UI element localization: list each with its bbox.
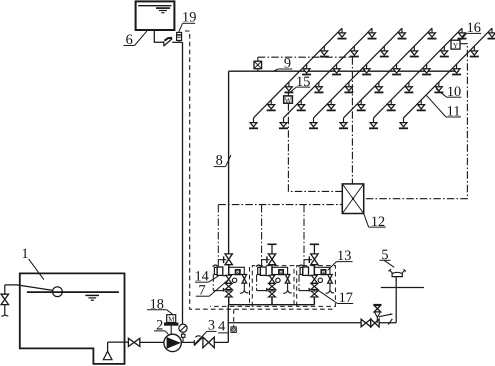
drencher head row 2 pos 2 (297, 100, 306, 110)
label 6 (124, 31, 148, 48)
svg-text:4: 4 (218, 319, 225, 335)
svg-text:1: 1 (21, 246, 28, 262)
valve group 1 riser (228, 265, 230, 305)
drencher head row 3 pos 6 (398, 28, 407, 38)
control line from unit 12 top (351, 57, 353, 184)
svg-text:Y: Y (453, 41, 459, 50)
drencher head row 6 pos 4 (452, 64, 461, 74)
pilot valve 14 group 1 (213, 265, 229, 276)
check valve on test pipe (361, 319, 371, 327)
distribution branch pipe row 4 (344, 28, 433, 118)
pipe after valves (379, 322, 396, 324)
valve group 3 riser (313, 265, 315, 305)
drencher head row 4 pos 2 (357, 100, 366, 110)
pilot control drop line group 1 (217, 205, 219, 260)
valve group 2 riser (271, 265, 273, 305)
drencher head row 6 pos 3 (434, 82, 443, 92)
valve group 2 upper shut-off valve (262, 254, 276, 265)
label 2 (154, 318, 168, 335)
drencher head row 6 pos 2 (417, 100, 426, 110)
check valve at tank 6 outlet (164, 38, 173, 47)
flow detector on riser (231, 327, 236, 333)
pump 2 with motor 18 (164, 334, 181, 351)
supply riser from pump line (227, 305, 229, 343)
drencher head row 4 pos 6 (428, 28, 437, 38)
drencher head row 3 pos 3 (344, 82, 353, 92)
pilot valve 14 group 2 (256, 265, 272, 276)
drain outlet group 2 (283, 290, 292, 293)
svg-text:s: s (323, 270, 325, 276)
shut-off valve middle group 2 (269, 283, 276, 289)
suction strainer in sump (103, 342, 112, 360)
drain branch valve group 2 (285, 275, 290, 291)
riser lower segment group 2 (271, 297, 273, 305)
pipe to riser (214, 341, 228, 343)
distribution branch pipe row 1 (254, 28, 343, 118)
drencher head row 5 pos 3 (404, 82, 413, 92)
svg-text:8: 8 (216, 152, 223, 168)
svg-text:s: s (280, 270, 282, 276)
label 10 (436, 84, 461, 100)
control line from unit 12 to valve group pilots (218, 204, 342, 206)
drencher head row 3 pos 1 (309, 118, 318, 128)
drain outlet group 1 (240, 290, 249, 293)
label 1 (21, 246, 44, 280)
pressure gauge on pilot line (179, 324, 187, 342)
shut-off valve lower group 1 (225, 291, 232, 297)
dashed box around valve group 3 (297, 266, 336, 307)
drencher head row 6 pos 5 (470, 46, 479, 56)
riser to hydrant 5 (395, 277, 397, 323)
drencher head row 5 pos 5 (440, 46, 449, 56)
drencher head row 4 pos 4 (392, 64, 401, 74)
deluge valve group 2 (269, 265, 275, 284)
control line from detector 15 down to control unit 12 (288, 103, 342, 191)
label 8 (214, 152, 231, 168)
valve group 1 upper shut-off valve (218, 254, 232, 265)
drencher head row 2 pos 3 (314, 82, 323, 92)
pressure gauge group 1 (232, 278, 236, 282)
signal device s group 1 (236, 270, 240, 276)
labels 3 4 (195, 318, 228, 344)
drencher head row 1 pos 3 (284, 82, 293, 92)
drencher head row 4 pos 3 (374, 82, 383, 92)
drencher head row 2 pos 5 (350, 46, 359, 56)
pilot drain link group 2 (257, 274, 267, 291)
svg-text:M: M (168, 316, 175, 324)
dashed box around valve group 1 (210, 267, 250, 306)
main feed line 8 vertical (228, 71, 230, 254)
drencher head row 1 pos 2 (267, 100, 276, 110)
drencher head row 6 pos 1 (399, 118, 408, 128)
device 19 (metering device) (177, 32, 182, 42)
drain outlet group 3 (326, 290, 335, 293)
pilot control drop line group 3 (303, 205, 305, 260)
valve group 2 capped stub (267, 244, 276, 254)
hydrant 5 hose connection (389, 269, 407, 276)
detector W box 15 under drencher (284, 93, 293, 105)
drencher head row 4 pos 5 (410, 46, 419, 56)
detector Y box 16 (451, 40, 460, 50)
drencher head row 1 pos 1 (249, 118, 258, 128)
drencher head row 1 pos 4 (302, 64, 311, 74)
distribution branch pipe row 5 (374, 28, 463, 118)
drencher head row 5 pos 6 (458, 28, 467, 38)
drencher head row 1 pos 5 (320, 46, 329, 56)
shut-off valve middle group 3 (311, 283, 318, 289)
valve chamber group 1 (229, 267, 245, 274)
drencher head row 6 pos 6 (488, 28, 495, 38)
pilot actuator link group 3 (303, 260, 305, 267)
pilot actuator link group 2 (261, 260, 263, 267)
test pipe to hydrant (228, 322, 361, 324)
label 12 (364, 214, 386, 230)
pressure gauge group 3 (318, 278, 322, 282)
dashed pump-room enclosure (185, 31, 335, 309)
label 14 (194, 269, 218, 285)
pilot drain link group 3 (299, 274, 309, 291)
pipe from check valve to corner (172, 41, 182, 43)
overflow pipe with valve (1, 285, 9, 316)
label 5 (380, 247, 395, 267)
riser lower segment group 1 (228, 297, 230, 305)
valve chamber group 2 (272, 267, 288, 274)
drencher head row 1 pos 6 (338, 28, 347, 38)
safety valve with lever (374, 305, 394, 323)
union slash on pipe (388, 319, 392, 325)
drencher head row 5 pos 2 (387, 100, 396, 110)
electric motor 18 (164, 315, 178, 335)
drencher head row 5 pos 1 (369, 118, 378, 128)
label 16 (461, 20, 481, 40)
drencher head row 2 pos 1 (279, 118, 288, 128)
drain branch valve group 3 (328, 275, 333, 291)
drencher head row 3 pos 2 (327, 100, 336, 110)
drencher head row 3 pos 4 (362, 64, 371, 74)
reservoir 1 (20, 273, 125, 364)
pilot supply line from tank 6 down to pump outlet (182, 42, 184, 324)
drencher head row 2 pos 4 (332, 64, 341, 74)
distribution branch pipe row 6 (404, 28, 493, 118)
signal device s group 3 (321, 270, 325, 276)
label 13 (328, 248, 353, 271)
tank 6 (pilot water tank) (136, 1, 175, 30)
supply main line horizontal (229, 70, 459, 72)
drencher head row 2 pos 6 (368, 28, 377, 38)
dashed box around valve group 2 (252, 266, 294, 307)
signal device s group 2 (279, 270, 283, 276)
valve chamber group 3 (314, 267, 330, 274)
drencher head row 5 pos 4 (422, 64, 431, 74)
suction gate valve (128, 338, 139, 346)
svg-text:W: W (285, 95, 292, 104)
label 7 (196, 280, 229, 299)
pilot actuator link group 1 (217, 260, 219, 267)
signal line from flow detector (233, 309, 235, 327)
svg-text:s: s (237, 270, 239, 276)
pilot valve 14 group 3 (298, 265, 314, 276)
float valve in reservoir (5, 285, 63, 297)
deluge valve group 3 (312, 265, 318, 284)
shut-off valve lower group 3 (311, 291, 318, 297)
check valve 3 (194, 336, 203, 346)
control unit 12 (342, 184, 363, 214)
drencher head row 4 pos 1 (339, 118, 348, 128)
pressure gauge group 2 (276, 278, 280, 282)
label 19 (179, 10, 197, 32)
drain branch valve group 1 (242, 275, 247, 291)
label 11 (427, 95, 462, 119)
shut-off valve middle group 1 (225, 283, 232, 289)
ground line (381, 287, 424, 289)
manifold pipe under valve groups (228, 304, 314, 306)
deluge valve group 1 (226, 265, 232, 284)
pilot control drop line group 2 (261, 205, 263, 260)
riser lower segment group 3 (313, 297, 315, 305)
valve group 3 upper shut-off valve (304, 254, 318, 265)
label 17 (317, 290, 353, 306)
control line from box 9 to riser of unit 12 (258, 56, 353, 58)
drencher head row 3 pos 5 (380, 46, 389, 56)
pump discharge pipe (181, 341, 194, 343)
valve group 3 capped stub (310, 244, 319, 254)
shut-off valve lower group 2 (269, 291, 276, 297)
control line from detector 16 down to control unit 12 (364, 44, 468, 199)
label 15 (289, 74, 310, 93)
pipe from tank 6 down (154, 31, 163, 43)
pilot drain link group 1 (213, 274, 223, 291)
gate valve 4 (203, 337, 214, 348)
distribution branch pipe row 3 (314, 28, 403, 118)
incendiary detector box 9 on main line (254, 57, 262, 71)
suction pipe (108, 341, 129, 343)
pipe valve to pump (140, 341, 164, 343)
label 9 (273, 56, 293, 72)
gate valve on test pipe (371, 319, 379, 327)
distribution branch pipe row 2 (284, 28, 373, 118)
label 18 (147, 296, 173, 314)
